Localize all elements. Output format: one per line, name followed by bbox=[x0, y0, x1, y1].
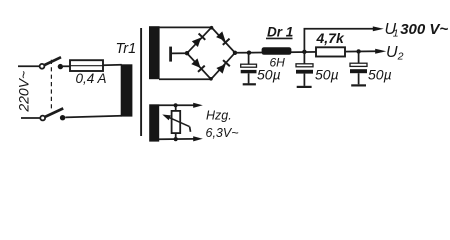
wire: mains top feed bbox=[18, 65, 40, 67]
svg-text:Hzg.: Hzg. bbox=[206, 108, 232, 122]
potentiometer hum balance bbox=[161, 105, 190, 139]
transformer HV secondary winding bbox=[149, 26, 160, 79]
capacitor C3 50µ bbox=[350, 51, 367, 85]
svg-text:6H: 6H bbox=[270, 56, 286, 70]
underline of Dr1 bbox=[266, 37, 293, 39]
resistor R1 4,7k bbox=[316, 47, 345, 56]
wire: mains bottom feed bbox=[21, 117, 40, 119]
choke Dr1 bbox=[262, 47, 292, 55]
dashed gang link bbox=[50, 60, 52, 112]
diode D4 bottom-right bbox=[216, 60, 230, 74]
switch S1a bbox=[40, 57, 64, 69]
wire: fuse to transformer bbox=[103, 64, 122, 66]
arrow to U2 bbox=[375, 49, 386, 54]
svg-text:U1300 V~: U1300 V~ bbox=[385, 21, 449, 40]
wire: DC rail bbox=[235, 51, 377, 53]
arrow to U1 bbox=[373, 26, 384, 31]
node: rail cap1 junction bbox=[247, 51, 251, 55]
svg-text:Dr 1: Dr 1 bbox=[267, 25, 293, 40]
node: bridge bottom corner bbox=[209, 77, 213, 81]
switch S1b bbox=[40, 108, 65, 120]
capacitor C2 50µ bbox=[296, 52, 313, 87]
wire: heater bottom bbox=[159, 138, 195, 140]
node: heater bottom junction bbox=[174, 137, 178, 141]
wire: secondary top to bridge bbox=[159, 26, 212, 28]
diode D2 top-right bbox=[216, 31, 230, 45]
svg-text:6,3V~: 6,3V~ bbox=[206, 126, 239, 140]
wire: heater top bbox=[159, 104, 195, 106]
wire: ground to bridge left bbox=[171, 52, 187, 54]
capacitor C1 50µ bbox=[241, 53, 257, 85]
wire: switch to primary bbox=[65, 116, 121, 118]
transformer core bbox=[140, 28, 142, 136]
chassis ground of bridge minus bbox=[169, 47, 172, 62]
wire: secondary bottom to bridge bbox=[159, 78, 211, 80]
bridge rectifier diamond bbox=[187, 27, 235, 79]
node: heater top junction bbox=[174, 103, 178, 107]
diode D3 bottom-left bbox=[191, 58, 205, 72]
node: bridge right corner bbox=[233, 51, 237, 55]
node: rail cap2 junction bbox=[302, 50, 306, 54]
wire: U1 branch bbox=[304, 29, 373, 52]
svg-text:220V~: 220V~ bbox=[16, 71, 32, 113]
svg-text:Tr1: Tr1 bbox=[116, 41, 137, 57]
diode D1 top-left bbox=[191, 33, 205, 47]
svg-text:50µ: 50µ bbox=[368, 67, 392, 83]
arrow heater bottom bbox=[193, 136, 203, 141]
svg-text:0,4 A: 0,4 A bbox=[76, 71, 107, 86]
node: bridge left corner bbox=[185, 51, 189, 55]
arrow heater top bbox=[193, 103, 203, 108]
svg-text:50µ: 50µ bbox=[315, 67, 339, 83]
node: bridge top corner bbox=[210, 26, 214, 30]
wire: switch to fuse bbox=[63, 65, 70, 67]
node: rail cap3 junction bbox=[356, 49, 360, 53]
svg-text:4,7k: 4,7k bbox=[316, 30, 345, 46]
transformer primary winding bbox=[121, 64, 133, 116]
transformer heater winding bbox=[149, 104, 159, 141]
fuse F1 0,4A bbox=[70, 60, 103, 71]
